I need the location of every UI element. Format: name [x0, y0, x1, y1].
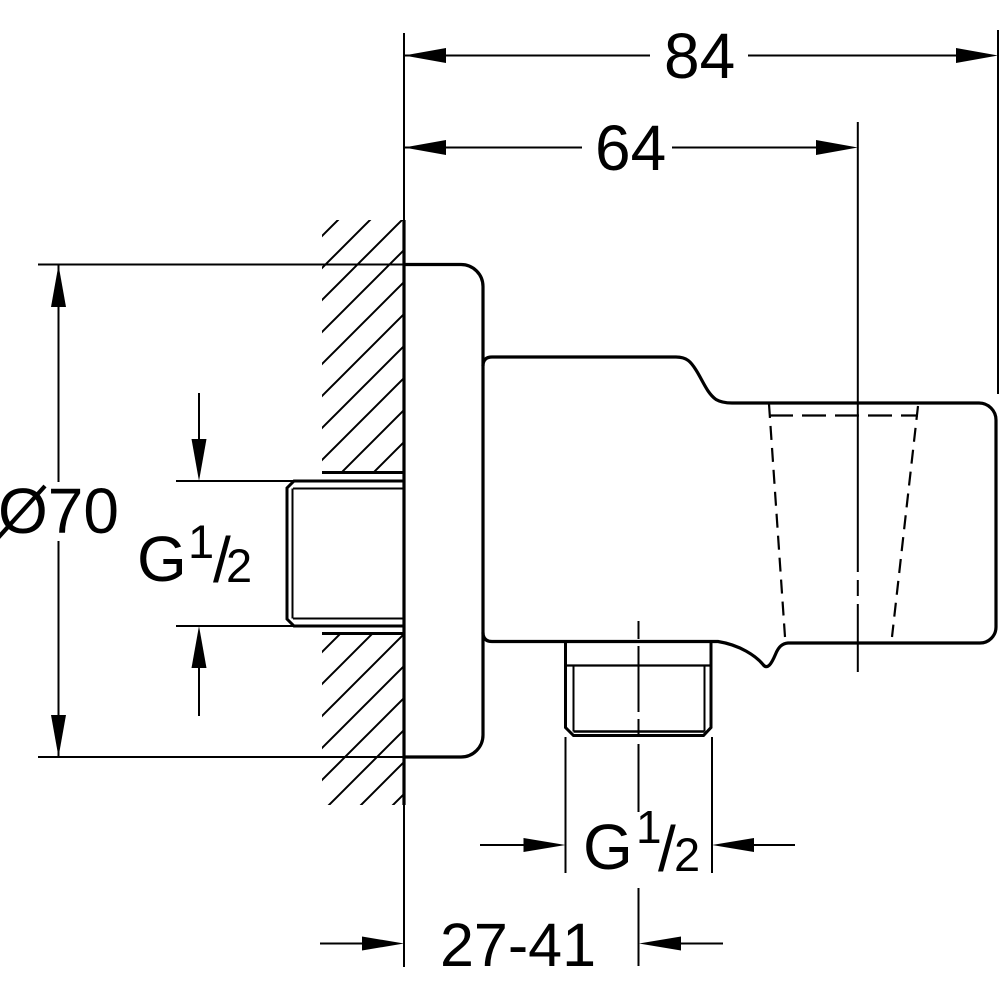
svg-text:64: 64 [595, 112, 666, 184]
svg-text:27-41: 27-41 [440, 911, 596, 979]
svg-text:2: 2 [674, 828, 700, 881]
svg-text:2: 2 [226, 539, 252, 592]
svg-text:G: G [137, 523, 187, 595]
svg-text:G: G [583, 811, 633, 883]
svg-text:O70: O70 [0, 475, 119, 547]
svg-text:84: 84 [664, 20, 735, 92]
svg-text:1: 1 [188, 515, 214, 568]
